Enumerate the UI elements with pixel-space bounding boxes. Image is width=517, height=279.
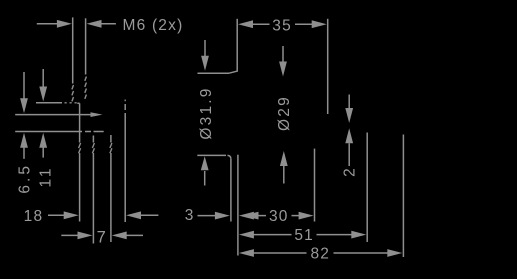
svg-text:Ø31.9: Ø31.9 bbox=[198, 86, 215, 139]
svg-text:30: 30 bbox=[269, 208, 289, 225]
svg-text:82: 82 bbox=[310, 246, 330, 263]
svg-text:Ø29: Ø29 bbox=[276, 95, 293, 131]
svg-text:11: 11 bbox=[38, 165, 55, 187]
svg-text:51: 51 bbox=[294, 227, 314, 244]
svg-text:M6 (2x): M6 (2x) bbox=[123, 17, 184, 34]
svg-text:35: 35 bbox=[272, 17, 292, 34]
svg-text:2: 2 bbox=[342, 167, 359, 177]
svg-text:3: 3 bbox=[185, 207, 195, 224]
svg-text:6.5: 6.5 bbox=[17, 163, 34, 194]
svg-text:18: 18 bbox=[24, 208, 44, 225]
svg-text:7: 7 bbox=[97, 228, 107, 246]
